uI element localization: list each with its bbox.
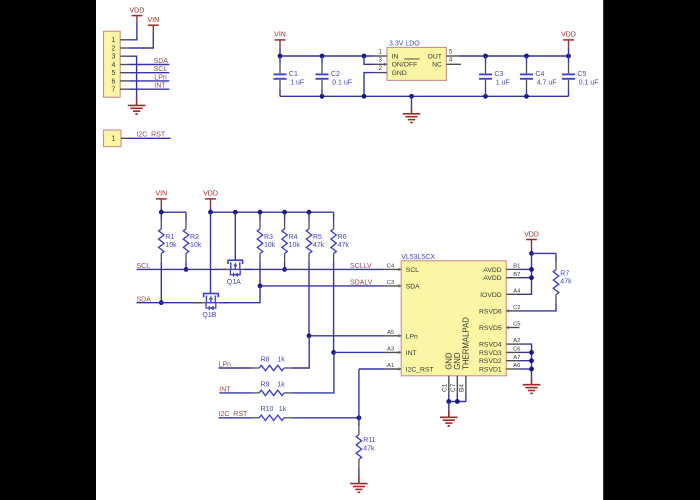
svg-text:INT: INT: [154, 83, 166, 90]
wire R7 to RSVD6 pin C2: [520, 303, 557, 311]
svg-text:LPn: LPn: [406, 333, 418, 340]
junction R5 / LPn / R8 riser: [307, 333, 312, 338]
junction bottom rail / ground stem: [409, 94, 414, 99]
junction VDD / R7 branch: [529, 251, 534, 256]
svg-text:SDALV: SDALV: [350, 280, 373, 287]
resistor R7 47k: [553, 253, 572, 302]
junction GND C1: [446, 399, 451, 404]
junction R3 / SDALV: [258, 284, 263, 289]
svg-text:INT: INT: [406, 350, 417, 357]
junction output rail / C5 / VDD: [566, 54, 571, 59]
wire LPn to R8: [219, 367, 252, 369]
wire INT (J1 pin 7): [129, 88, 169, 90]
junction VDD rail / Q1B gate: [208, 210, 213, 215]
wire LPn (J1 pin 6): [129, 80, 169, 82]
wire RSVD4-RSVD1 vertical to ground: [520, 344, 532, 377]
wire VDD branch to R7: [532, 252, 557, 254]
svg-text:VIN: VIN: [155, 191, 167, 198]
junction R1 / SDA: [159, 300, 164, 305]
svg-text:C4: C4: [387, 264, 395, 270]
svg-text:R3: R3: [264, 234, 273, 241]
junction bottom rail / GND branch: [362, 94, 367, 99]
svg-text:R2: R2: [190, 234, 199, 241]
svg-text:C1: C1: [289, 71, 298, 78]
svg-text:1k: 1k: [277, 356, 285, 363]
svg-text:3: 3: [378, 57, 382, 64]
svg-text:R8: R8: [261, 356, 270, 363]
resistor R4 10k: [282, 212, 300, 262]
junction R10 / R11 / A1 riser: [357, 415, 362, 420]
svg-text:B1: B1: [513, 264, 520, 270]
resistor R10 1k: [251, 406, 292, 420]
svg-text:47k: 47k: [338, 242, 350, 249]
svg-text:C5: C5: [513, 322, 520, 328]
svg-text:I2C_RST: I2C_RST: [136, 132, 166, 139]
capacitor C5: [562, 56, 599, 96]
power flag VIN (pull-up rail): [155, 191, 167, 207]
svg-text:7: 7: [111, 87, 115, 94]
ground (right of IC): [523, 377, 541, 393]
wire Q1B gate riser: [210, 212, 212, 293]
svg-text:1k: 1k: [277, 381, 285, 388]
svg-text:1 uF: 1 uF: [496, 80, 510, 87]
resistor R11 47k: [356, 418, 375, 468]
svg-text:R6: R6: [338, 234, 347, 241]
capacitor C1: [274, 56, 305, 96]
svg-text:RSVD4: RSVD4: [479, 342, 502, 349]
svg-text:NC: NC: [432, 62, 442, 69]
junction output rail / C3: [483, 54, 488, 59]
wire Q1A gate riser: [234, 212, 236, 260]
svg-text:RSVD2: RSVD2: [479, 358, 502, 365]
junction input rail / C1: [278, 54, 283, 59]
svg-text:R4: R4: [289, 234, 298, 241]
wire VIN to J1 pin 2: [129, 33, 153, 49]
voltage regulator U2 3.3V LDO: [374, 40, 461, 80]
wire R3 to SDALV: [259, 262, 261, 286]
resistor R6 47k: [331, 212, 349, 262]
svg-text:C5: C5: [577, 71, 586, 78]
svg-text:3.3V LDO: 3.3V LDO: [389, 40, 420, 47]
svg-text:LPn: LPn: [154, 74, 167, 81]
svg-text:10k: 10k: [190, 242, 202, 249]
capacitor C4: [520, 56, 557, 96]
svg-text:OUT: OUT: [428, 53, 442, 60]
junction bottom rail / C2: [320, 94, 325, 99]
resistor R1 10k: [159, 212, 177, 262]
transistor Q1B: [193, 294, 229, 320]
wire R4 to SCLLV: [284, 262, 286, 270]
svg-text:RSVD5: RSVD5: [479, 325, 502, 332]
svg-text:4: 4: [449, 57, 453, 64]
svg-text:R5: R5: [313, 234, 322, 241]
svg-text:1 uF: 1 uF: [290, 80, 304, 87]
wire A1 riser: [358, 369, 360, 418]
svg-text:VIN: VIN: [274, 32, 286, 39]
svg-text:1: 1: [111, 37, 115, 44]
wire AVDD/IOVDD vertical: [520, 253, 532, 294]
svg-text:A2: A2: [513, 338, 520, 344]
svg-text:A5: A5: [387, 330, 394, 336]
connector J1 7-pin header: [104, 31, 129, 97]
capacitor C2: [316, 56, 353, 96]
junction GND C7: [455, 399, 460, 404]
svg-text:IOVDD: IOVDD: [480, 292, 502, 299]
svg-text:5: 5: [449, 48, 453, 55]
svg-text:47k: 47k: [560, 279, 572, 286]
wire VIN to input rail: [279, 47, 281, 56]
wire RSVD1 A6: [520, 368, 532, 370]
svg-text:VDD: VDD: [524, 231, 539, 238]
power flag VDD (J1 pin 1): [130, 7, 145, 23]
wire VDD to AVDD rail: [531, 247, 533, 254]
junction RSVD1 A6: [529, 367, 534, 372]
svg-text:47k: 47k: [313, 242, 325, 249]
svg-text:SCL: SCL: [406, 267, 419, 274]
svg-text:RSVD6: RSVD6: [479, 308, 502, 315]
wire LDO bottom rail: [280, 95, 569, 97]
wire LDO input rail: [280, 55, 374, 57]
svg-text:C3: C3: [494, 71, 503, 78]
wire R6 to INT row: [333, 262, 335, 353]
ground (below R11): [350, 476, 368, 492]
svg-text:SCL: SCL: [154, 66, 168, 73]
wire I2C_RST to R10: [219, 417, 252, 419]
IC U1 VL53L5CX: [385, 254, 520, 393]
wire LDO output rail: [459, 55, 569, 57]
wire SDA to Q1B: [137, 302, 203, 304]
junction VDD rail / R3: [258, 210, 263, 215]
svg-text:0.1 uF: 0.1 uF: [579, 80, 599, 87]
junction R6 / INT / R9 riser: [331, 350, 336, 355]
wire SCL (J1 pin 5): [129, 72, 169, 74]
power flag VDD (IC): [524, 231, 539, 247]
power flag VDD (pull-up rail): [203, 191, 218, 207]
wire SCL to Q1A: [137, 268, 228, 270]
svg-text:A3: A3: [387, 347, 394, 353]
wire SDALV Q1B to corner: [219, 286, 260, 303]
svg-text:SDA: SDA: [154, 58, 169, 65]
svg-text:R7: R7: [560, 270, 569, 277]
svg-text:VL53L5CX: VL53L5CX: [401, 254, 435, 261]
junction AVDD B7: [529, 275, 534, 280]
svg-text:GND: GND: [392, 70, 407, 77]
junction VDD rail / Q1A gate: [233, 210, 238, 215]
connector J2 1-pin (I2C_RST): [104, 130, 130, 147]
junction VIN rail / R1: [159, 210, 164, 215]
junction bottom rail / C4: [524, 94, 529, 99]
wire VDD flag stem: [210, 206, 212, 212]
svg-text:ON/OFF: ON/OFF: [392, 62, 418, 69]
svg-text:C6: C6: [513, 347, 520, 353]
junction R2 / SCL: [184, 267, 189, 272]
svg-text:I2C_RST: I2C_RST: [406, 367, 434, 374]
wire ON/OFF branch to pin 3: [364, 56, 374, 64]
junction AVDD B1: [529, 267, 534, 272]
wire VIN pull-up rail: [161, 211, 186, 213]
svg-text:C3: C3: [387, 280, 394, 286]
resistor R5 47k: [306, 212, 324, 262]
wire R8 to LPn junction: [292, 336, 309, 368]
svg-text:R11: R11: [363, 437, 375, 444]
svg-text:Q1B: Q1B: [202, 312, 216, 319]
wire VDD to output rail: [568, 47, 570, 56]
junction input rail / ON-OFF branch: [362, 54, 367, 59]
svg-text:B7: B7: [513, 272, 520, 278]
svg-text:SCLLV: SCLLV: [350, 263, 372, 270]
svg-text:B4: B4: [458, 384, 465, 392]
wire I2C_RST (J2 pin 1): [129, 137, 171, 139]
wire GND stem to ground: [448, 402, 450, 410]
junction output rail / C4: [524, 54, 529, 59]
svg-text:5: 5: [111, 70, 115, 77]
wire SDA (J1 pin 4): [129, 64, 169, 66]
wire VDD pull-up rail: [211, 211, 334, 213]
svg-text:RSVD1: RSVD1: [479, 367, 502, 374]
resistor R2 10k: [183, 212, 201, 262]
svg-text:1: 1: [112, 136, 116, 143]
svg-text:VIN: VIN: [147, 17, 159, 24]
power flag VIN (J1 pin 2): [147, 17, 159, 33]
junction RSVD3 C6: [529, 350, 534, 355]
wire R9 to INT junction: [292, 352, 334, 393]
svg-text:6: 6: [111, 78, 115, 85]
svg-text:4.7 uF: 4.7 uF: [537, 80, 557, 87]
transistor Q1A: [217, 260, 253, 286]
svg-text:VDD: VDD: [203, 191, 218, 198]
svg-text:47k: 47k: [363, 445, 375, 452]
svg-text:RSVD3: RSVD3: [479, 350, 502, 357]
wire LPn row to IC pin A5: [309, 335, 385, 337]
svg-text:10k: 10k: [165, 242, 177, 249]
svg-text:10k: 10k: [264, 242, 276, 249]
junction VDD rail / R5: [307, 210, 312, 215]
svg-text:A7: A7: [513, 355, 520, 361]
junction input rail / C2: [320, 54, 325, 59]
resistor R9 1k: [251, 381, 292, 395]
svg-text:SDA: SDA: [406, 283, 420, 290]
wire J1 pin 3 to ground: [129, 56, 137, 98]
resistor R3 10k: [257, 212, 275, 262]
power flag VDD (LDO output): [561, 32, 576, 48]
junction RSVD2 A7: [529, 358, 534, 363]
resistor R8 1k: [251, 356, 292, 370]
wire RSVD2 A7: [520, 360, 532, 362]
svg-text:VDD: VDD: [561, 32, 576, 39]
svg-text:R10: R10: [261, 406, 274, 413]
svg-text:R1: R1: [165, 234, 174, 241]
wire VDD to J1 pin 1: [129, 23, 137, 40]
svg-text:1: 1: [378, 48, 382, 55]
svg-text:C4: C4: [535, 71, 544, 78]
junction bottom rail / C3: [483, 94, 488, 99]
svg-text:2: 2: [111, 45, 115, 52]
wire AVDD B1: [520, 268, 532, 270]
wire AVDD B7: [520, 277, 532, 279]
svg-text:AVDD: AVDD: [483, 275, 501, 282]
wire R2 to SCL: [185, 262, 187, 270]
wire GND pins C1/C7/B4 join: [449, 393, 466, 401]
svg-text:AVDD: AVDD: [483, 267, 501, 274]
svg-text:Q1A: Q1A: [227, 279, 241, 286]
wire R5 to LPn row: [308, 262, 310, 336]
wire ground stem (LDO): [411, 96, 413, 106]
wire LDO GND pin 2 to bottom rail: [364, 73, 374, 97]
svg-text:3: 3: [111, 54, 115, 61]
pin name ON/OFF with overline: [392, 59, 420, 69]
wire INT to R9: [219, 392, 251, 394]
svg-text:IN: IN: [392, 53, 399, 60]
junction VDD rail / R4: [282, 210, 287, 215]
wire R10 to R11 junction: [292, 417, 359, 419]
svg-text:10k: 10k: [289, 242, 301, 249]
wire I2C_RST row to IC pin A1: [359, 368, 385, 370]
power flag VIN (LDO input): [274, 32, 286, 48]
ground (below LDO): [403, 106, 421, 122]
wire R1 to SDA: [160, 262, 162, 303]
ground (below J1): [128, 98, 146, 114]
svg-text:A4: A4: [513, 288, 521, 294]
svg-text:THERMALPAD: THERMALPAD: [462, 317, 471, 370]
svg-text:C7: C7: [450, 383, 457, 392]
svg-text:C1: C1: [441, 383, 448, 392]
svg-text:A6: A6: [513, 363, 520, 369]
ground (below IC): [440, 410, 458, 426]
wire R11 to ground: [358, 468, 360, 477]
svg-text:VDD: VDD: [130, 7, 145, 14]
svg-text:4: 4: [111, 62, 115, 69]
wire RSVD3 C6: [520, 351, 532, 353]
junction R4 / SCLLV: [282, 267, 287, 272]
capacitor C3: [479, 56, 510, 96]
wire SCLLV Q1A to IC pin C4: [244, 268, 385, 270]
svg-text:2: 2: [378, 65, 382, 72]
wire INT row to IC pin A3: [334, 351, 385, 353]
svg-text:0.1 uF: 0.1 uF: [332, 80, 352, 87]
wire VIN flag stem: [160, 206, 162, 212]
svg-text:C2: C2: [331, 71, 340, 78]
svg-text:A1: A1: [387, 363, 394, 369]
svg-text:R9: R9: [261, 381, 270, 388]
svg-text:C2: C2: [513, 305, 520, 311]
svg-text:1k: 1k: [279, 406, 287, 413]
wire SDALV to IC pin C3: [260, 285, 385, 287]
